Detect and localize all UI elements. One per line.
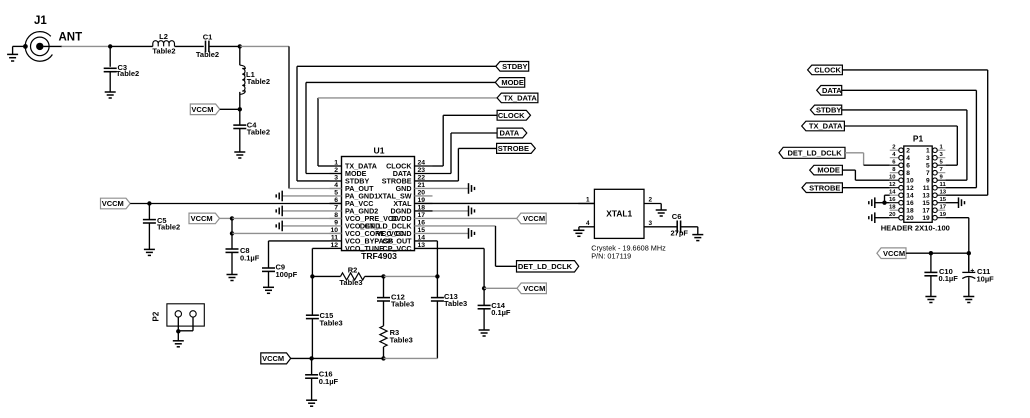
connector P2 — [152, 304, 205, 326]
svg-text:18: 18 — [418, 205, 426, 212]
svg-text:24: 24 — [418, 160, 426, 167]
inductor L2 — [152, 32, 175, 56]
resistor R3 — [380, 301, 413, 361]
svg-text:VCCM: VCCM — [102, 199, 124, 208]
wire MODE to P1 pin 10 — [842, 170, 889, 180]
svg-text:11: 11 — [331, 235, 338, 242]
svg-text:17: 17 — [940, 205, 947, 211]
svg-text:ANT: ANT — [59, 32, 83, 44]
svg-text:100pF: 100pF — [276, 270, 298, 279]
svg-text:STROBE: STROBE — [809, 183, 840, 192]
wire VCO_TUNE (U1 pin 12) — [310, 248, 329, 278]
svg-text:VCCM: VCCM — [191, 105, 213, 114]
svg-text:9: 9 — [926, 178, 930, 185]
wire MODE (U1 pin 2) — [306, 82, 495, 173]
wire CP_OUT (U1 pin 14) — [433, 241, 438, 277]
svg-text:12: 12 — [330, 242, 338, 249]
svg-text:6: 6 — [906, 163, 910, 170]
svg-text:11: 11 — [940, 182, 947, 188]
svg-text:0.1µF: 0.1µF — [491, 308, 511, 317]
wire (VCCM to U1 pin 8) — [232, 217, 342, 219]
svg-text:20: 20 — [906, 215, 914, 222]
svg-text:Table3: Table3 — [339, 278, 362, 287]
svg-text:P2: P2 — [152, 311, 161, 321]
svg-text:2: 2 — [649, 197, 653, 204]
svg-text:14: 14 — [418, 235, 426, 242]
wire DATA to P1 pin 11 — [842, 90, 977, 187]
net label DET_LD_DCLK (U1 side) — [517, 261, 579, 272]
svg-text:2: 2 — [334, 167, 338, 174]
svg-text:DATA: DATA — [499, 129, 519, 138]
node (C1/L1 junction) — [209, 44, 242, 48]
capacitor C8 — [226, 233, 260, 280]
wire TX_DATA (U1 pin 1) — [318, 98, 497, 166]
ground (P1 pin 15) — [945, 197, 964, 208]
svg-text:1: 1 — [334, 160, 338, 167]
svg-text:12: 12 — [906, 185, 914, 192]
power label VCCM (PA_VCC) — [101, 198, 152, 209]
svg-text:0.1µF: 0.1µF — [939, 274, 959, 283]
svg-text:Table3: Table3 — [320, 319, 343, 328]
ground (U1 pin 21 GND) — [433, 183, 475, 194]
svg-text:5: 5 — [926, 163, 930, 170]
capacitor C6 (XTAL1 pin 3) — [644, 212, 703, 240]
net label TX_DATA (P1 side) — [802, 121, 845, 131]
svg-text:18: 18 — [889, 205, 896, 211]
svg-text:21: 21 — [418, 182, 426, 189]
svg-text:13: 13 — [940, 190, 947, 196]
ground (U1 pin 15 VCC_GND) — [433, 228, 475, 239]
wire CP_VCC (U1 pin 13) — [433, 248, 487, 305]
svg-text:P/N: 017119: P/N: 017119 — [591, 252, 631, 261]
capacitor C13 — [431, 276, 467, 358]
ground (XTAL1 pin 4) — [573, 220, 594, 236]
svg-text:L2: L2 — [159, 32, 168, 41]
wire (R2 to CP_OUT node) — [384, 274, 440, 278]
svg-text:Table2: Table2 — [157, 223, 180, 232]
wire (node to L2) — [110, 45, 153, 47]
svg-text:3: 3 — [334, 175, 338, 182]
svg-text:8: 8 — [906, 170, 910, 177]
power label VCCM (DVDD) — [433, 213, 547, 224]
net label TX_DATA — [497, 93, 538, 103]
pin 1 (XTAL1) — [578, 197, 594, 204]
connector P1 HEADER 2X10-.100 — [881, 134, 950, 233]
svg-text:20: 20 — [889, 212, 896, 218]
ground (U1 pin 9 VCO_GND) — [276, 221, 329, 232]
wire (VCCM to U1 pin 10) — [230, 218, 342, 235]
capacitor C14 — [478, 301, 511, 336]
wire TX_DATA to P1 pin 5 — [844, 126, 957, 165]
svg-text:Table2: Table2 — [247, 128, 270, 137]
capacitor C5 — [143, 204, 180, 256]
svg-text:17: 17 — [922, 208, 930, 215]
svg-text:10µF: 10µF — [977, 275, 995, 284]
svg-text:7: 7 — [334, 205, 338, 212]
svg-text:P1: P1 — [913, 134, 924, 144]
wire (L2 to C1) — [175, 45, 204, 47]
wire CLOCK to P1 pin 13 — [842, 70, 987, 195]
power label VCCM (P1 rail) — [877, 248, 971, 259]
svg-text:TX_DATA: TX_DATA — [809, 122, 843, 131]
svg-text:16: 16 — [889, 197, 896, 203]
wire (VCCM row) — [312, 357, 438, 359]
svg-text:3: 3 — [926, 155, 930, 162]
svg-text:Table3: Table3 — [390, 336, 413, 345]
net label DET_LD_DCLK (P1 side) — [779, 147, 845, 158]
svg-text:+: + — [970, 268, 974, 275]
svg-text:VCCM: VCCM — [262, 354, 284, 363]
ground (U1 pin 7 PA_GND2) — [276, 206, 329, 217]
svg-text:14: 14 — [906, 193, 914, 200]
inductor L1 — [240, 46, 270, 109]
svg-text:STDBY: STDBY — [816, 106, 841, 115]
svg-text:13: 13 — [922, 193, 930, 200]
svg-text:2: 2 — [906, 148, 910, 155]
connector J1 (BNC, ANT) — [25, 15, 82, 61]
svg-text:19: 19 — [922, 215, 930, 222]
svg-text:XTAL1: XTAL1 — [606, 209, 632, 219]
wire STROBE (U1 pin 22) — [433, 148, 497, 181]
wire STDBY (U1 pin 3) — [297, 66, 496, 181]
svg-text:Table2: Table2 — [152, 47, 175, 56]
wire CLOCK (U1 pin 24) — [433, 115, 498, 166]
svg-text:0.1µF: 0.1µF — [240, 253, 260, 262]
net label STDBY (P1 side) — [810, 105, 841, 115]
svg-text:20: 20 — [418, 190, 426, 197]
svg-text:3: 3 — [649, 220, 653, 227]
svg-text:MODE: MODE — [501, 78, 524, 87]
net label MODE (P1 side) — [810, 165, 843, 175]
svg-text:1: 1 — [926, 148, 930, 155]
svg-text:VCCM: VCCM — [523, 214, 545, 223]
svg-text:22: 22 — [418, 175, 426, 182]
svg-text:27pF: 27pF — [671, 229, 689, 238]
net label CLOCK (U1 side) — [497, 110, 530, 120]
svg-text:10: 10 — [906, 178, 914, 185]
power label VCCM (VCO supply) — [189, 213, 234, 224]
ground (P1 pin 20) — [869, 212, 890, 223]
capacitor C10 — [924, 253, 958, 302]
svg-text:4: 4 — [586, 220, 590, 227]
capacitor C16 — [305, 358, 338, 406]
svg-text:16: 16 — [906, 200, 914, 207]
svg-text:18: 18 — [906, 208, 914, 215]
svg-text:STDBY: STDBY — [502, 62, 527, 71]
net label CLOCK (P1 side) — [808, 65, 843, 75]
svg-text:TX_DATA: TX_DATA — [503, 94, 537, 103]
svg-text:HEADER 2X10-.100: HEADER 2X10-.100 — [881, 224, 950, 233]
ground (J1 shield) — [7, 44, 28, 61]
net label STROBE (P1 side) — [802, 183, 842, 193]
net label DATA (U1 side) — [497, 128, 527, 138]
svg-text:CLOCK: CLOCK — [498, 111, 525, 120]
svg-text:MODE: MODE — [817, 166, 840, 175]
wire DET_LD_DCLK (U1 pin 16) — [433, 226, 517, 266]
svg-text:Table2: Table2 — [247, 77, 270, 86]
ground (U1 pin 18 DGND) — [433, 206, 475, 217]
wire (P1 pin 19 to VCCM rail) — [945, 218, 969, 272]
capacitor C3 — [104, 46, 140, 98]
svg-text:C6: C6 — [672, 212, 682, 221]
svg-text:VCCM: VCCM — [523, 284, 545, 293]
svg-text:DET_LD_DCLK: DET_LD_DCLK — [518, 262, 573, 271]
net label STDBY — [496, 62, 529, 72]
svg-text:5: 5 — [334, 190, 338, 197]
ground (XTAL1 pin 2) — [644, 197, 667, 216]
svg-text:U1: U1 — [374, 146, 385, 156]
svg-text:CP_VCC: CP_VCC — [383, 245, 412, 253]
svg-text:16: 16 — [418, 220, 426, 227]
svg-text:13: 13 — [418, 242, 426, 249]
capacitor C15 — [306, 276, 343, 358]
net label MODE — [495, 78, 524, 88]
svg-text:VCO_TUNE: VCO_TUNE — [345, 245, 384, 253]
ground (P2) — [173, 317, 193, 347]
power label VCCM (loop filter) — [261, 353, 314, 364]
svg-text:Table2: Table2 — [196, 50, 219, 59]
svg-text:R2: R2 — [348, 266, 358, 275]
svg-text:Table2: Table2 — [116, 69, 139, 78]
svg-text:DATA: DATA — [822, 86, 842, 95]
ground (P1 pin 16) with pin 14 tie — [869, 195, 890, 208]
wire DATA (U1 pin 23) — [433, 133, 498, 173]
svg-text:J1: J1 — [34, 15, 47, 27]
ground (U1 pin 5 PA_GND1) — [276, 191, 329, 202]
net label STROBE (U1 side) — [497, 143, 536, 153]
power label VCCM (antenna bias) — [190, 104, 242, 115]
wire STROBE to P1 pin 12 — [842, 187, 889, 189]
power label VCCM (CP_VCC) — [484, 283, 546, 294]
wire XTAL (U1 pin 19 to XTAL1 pin 1) — [415, 202, 595, 204]
capacitor C9 (VCO_BYPASS) — [262, 241, 330, 293]
svg-text:17: 17 — [418, 212, 426, 219]
svg-text:0.1µF: 0.1µF — [319, 377, 339, 386]
svg-text:4: 4 — [334, 182, 338, 189]
svg-text:STROBE: STROBE — [498, 144, 529, 153]
svg-text:10: 10 — [889, 175, 896, 181]
op-amp U1 TRF4903 (24-pin IC) — [330, 146, 433, 261]
net label DATA (P1 side) — [817, 86, 843, 96]
capacitor C1 — [196, 33, 219, 60]
resistor R2 — [312, 266, 385, 287]
svg-text:7: 7 — [926, 170, 930, 177]
svg-text:DET_LD_DCLK: DET_LD_DCLK — [788, 148, 843, 157]
capacitor C4 — [233, 109, 270, 158]
svg-text:1: 1 — [586, 197, 590, 204]
wire (J1 to node) — [44, 44, 113, 48]
svg-text:12: 12 — [889, 182, 896, 188]
svg-text:23: 23 — [418, 167, 426, 174]
wire (VCCM to U1 pin 6) — [149, 203, 341, 205]
svg-text:CLOCK: CLOCK — [814, 66, 841, 75]
svg-text:VCCM: VCCM — [191, 214, 213, 223]
svg-text:11: 11 — [923, 185, 930, 192]
wire DET_LD_DCLK to P1 pin 6 — [845, 153, 890, 165]
svg-text:Table3: Table3 — [391, 299, 414, 308]
svg-text:Table3: Table3 — [444, 299, 467, 308]
svg-text:9: 9 — [334, 220, 338, 227]
crystal XTAL1 — [591, 189, 666, 260]
svg-text:15: 15 — [418, 227, 426, 234]
capacitor C11 (polarized) — [962, 253, 994, 302]
capacitor C12 — [377, 276, 414, 308]
svg-text:15: 15 — [922, 200, 930, 207]
wire STDBY to P1 pin 9 — [842, 110, 967, 180]
wire (PA_OUT net to U1 pin 4) — [240, 46, 342, 188]
svg-text:14: 14 — [889, 190, 896, 196]
svg-text:C1: C1 — [203, 33, 213, 42]
svg-text:4: 4 — [906, 155, 910, 162]
svg-text:VCCM: VCCM — [883, 249, 905, 258]
